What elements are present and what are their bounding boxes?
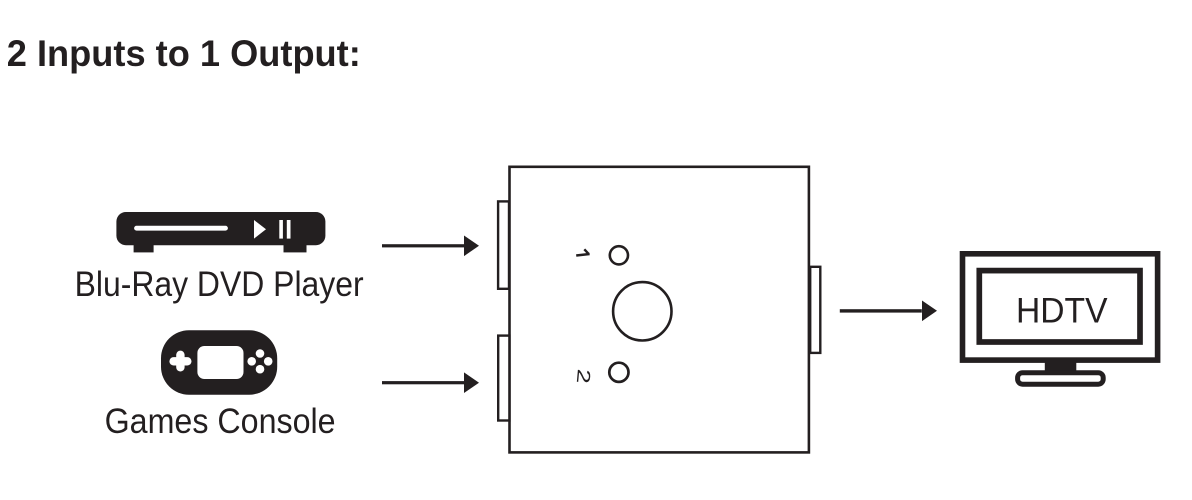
svg-text:2 Inputs to 1 Output:: 2 Inputs to 1 Output: <box>7 32 361 74</box>
led 1 <box>610 246 628 264</box>
hdtv stand neck <box>1045 358 1077 373</box>
led 2 <box>609 363 628 382</box>
arrow 2 (console to switch) <box>382 372 479 393</box>
output port tab <box>810 267 820 353</box>
hdtv outer frame <box>963 254 1158 360</box>
games console icon <box>161 330 277 395</box>
hdtv inner frame <box>979 271 1140 342</box>
port label 1 (rotated digit drawn as strokes) <box>576 249 589 255</box>
arrow 1 (blu-ray to switch) <box>382 236 479 257</box>
svg-text:HDTV: HDTV <box>1016 292 1108 331</box>
hdtv stand base <box>1018 373 1104 385</box>
switch box <box>510 167 809 453</box>
input port tab 1 <box>498 201 509 288</box>
input port tab 2 <box>498 336 509 421</box>
select button <box>613 282 671 340</box>
svg-text:Games Console: Games Console <box>105 402 336 441</box>
svg-text:Blu-Ray DVD Player: Blu-Ray DVD Player <box>75 265 364 304</box>
arrow 3 (switch to hdtv) <box>840 301 937 322</box>
svg-text:2: 2 <box>573 368 595 384</box>
blu-ray dvd player icon <box>116 212 325 252</box>
